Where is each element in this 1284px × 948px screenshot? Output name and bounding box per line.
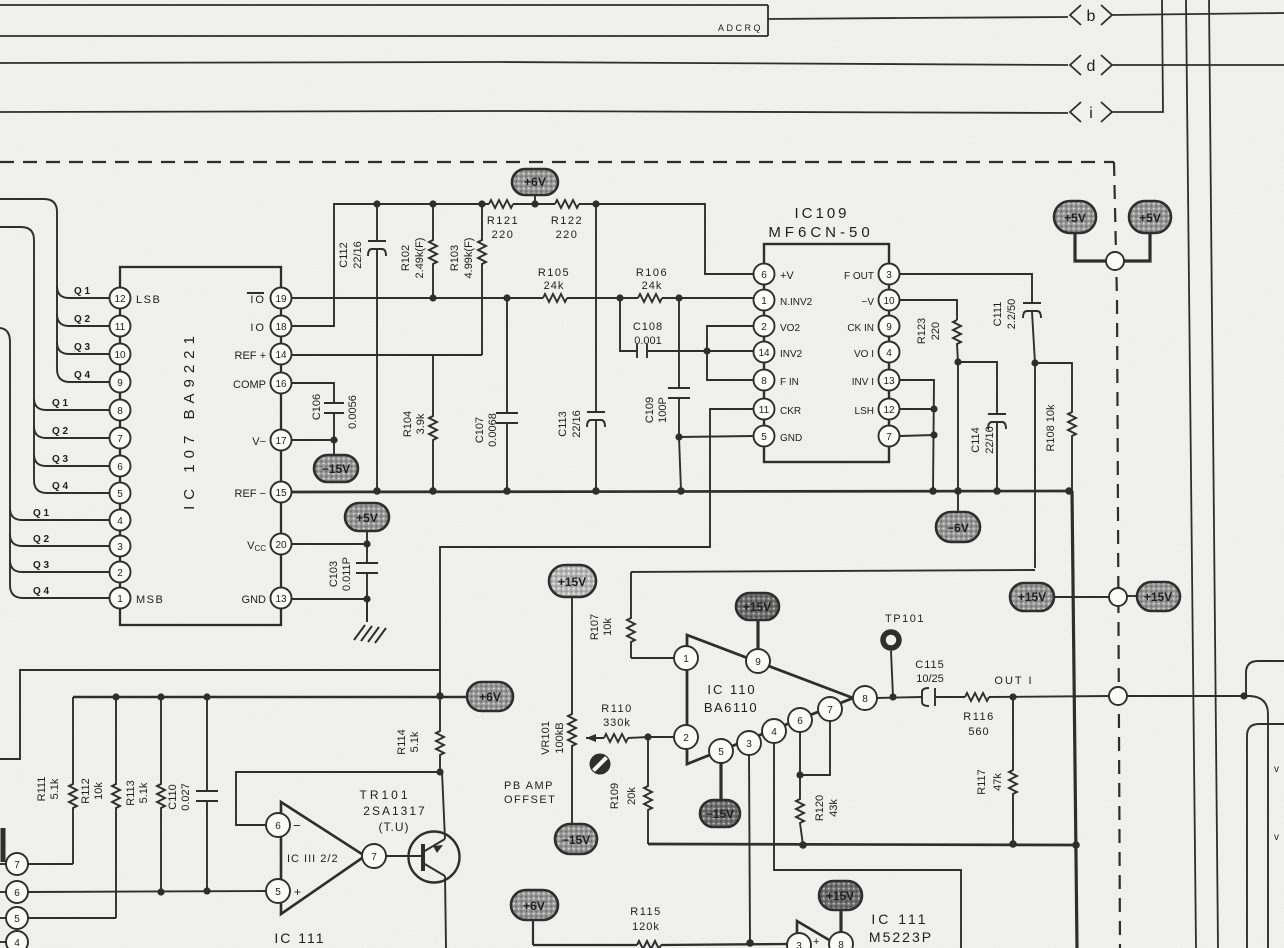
wire IO line R106 to IC109 pin1 [662,297,753,299]
wire vertical right 2 [1209,0,1218,948]
svg-text:100kB: 100kB [554,722,566,753]
pin 6 [110,456,131,477]
svg-text:IC 111: IC 111 [871,911,928,927]
svg-text:14: 14 [275,350,287,361]
svg-text:R117: R117 [976,769,988,794]
junction OUT1 right [1240,692,1247,699]
svg-text:6: 6 [117,462,123,473]
svg-text:R106: R106 [636,267,668,279]
svg-text:0.001: 0.001 [634,335,662,347]
junction R117 on lower bus [1009,840,1017,848]
pin 2 [110,562,131,583]
svg-text:N.INV2: N.INV2 [780,297,813,308]
svg-text:C110: C110 [167,784,179,809]
svg-text:+V: +V [780,270,794,282]
capacitor C115 electrolytic [915,659,965,706]
junction R114/CKR on +6V bus [436,692,444,700]
svg-text:−15V: −15V [562,833,590,847]
wire branch A2 to pin 11 [57,314,110,326]
junction rail C113 bottom [592,487,600,495]
svg-text:+5V: +5V [1064,211,1086,225]
wire from connector i turning up to top edge [1112,0,1163,112]
svg-text:22/16: 22/16 [571,410,583,438]
svg-text:F IN: F IN [780,377,799,388]
wire from connector b to right edge [1112,13,1284,15]
capacitor C112 electrolytic [338,204,386,491]
wire branch A3 to pin 10 [57,342,110,354]
power -15V dark at pin 5 [700,762,740,827]
wire pin7 down and left [800,720,830,775]
svg-text:22/16: 22/16 [984,426,996,454]
junction C108/INV2 node [703,347,710,354]
capacitor C107 [474,298,518,491]
svg-text:0.011P: 0.011P [341,557,353,591]
wire base drive pin7 to TR101 [385,855,422,857]
resistor R122 [555,200,579,208]
svg-text:INV I: INV I [852,377,874,388]
svg-text:3.9k: 3.9k [415,413,427,434]
svg-text:PB AMP: PB AMP [504,780,554,792]
wire bus line 2 (ADCRQ lower) [0,35,768,37]
svg-text:17: 17 [275,436,287,447]
wire bundle group A from left edge [0,199,110,382]
svg-text:15: 15 [275,488,287,499]
svg-text:C103: C103 [328,561,340,587]
svg-text:MF6CN-50: MF6CN-50 [768,224,873,241]
wire FOUT pin3 to C111 [900,274,1032,303]
junction rail +6V stub [531,200,538,207]
svg-text:2: 2 [761,322,767,333]
pin 5 [709,739,733,763]
pin 3 [110,536,131,557]
svg-text:GND: GND [242,594,267,606]
junction pin6/pin7 [796,771,803,778]
svg-text:−: − [293,818,301,833]
junction rail C112 [373,200,380,207]
power +6V bottom [511,890,558,945]
wire branch C3 to pin 2 [10,560,110,572]
junction GND C103 [363,595,370,602]
svg-text:IC 110: IC 110 [707,682,756,697]
svg-text:0.0068: 0.0068 [487,413,499,447]
svg-text:MSB: MSB [136,594,164,606]
power +15V right of pair [1126,582,1180,611]
svg-text:−15V: −15V [706,807,734,821]
resistor R110 [586,703,648,742]
svg-text:12: 12 [883,405,895,416]
pin 3 of IC111a [787,933,811,948]
pin 9 CKIN [847,316,899,337]
svg-text:C107: C107 [474,417,486,443]
svg-text:Q 1: Q 1 [52,398,69,409]
svg-text:5.1k: 5.1k [138,782,150,803]
svg-text:R116: R116 [963,711,994,723]
wire INV1 pin13 [900,380,934,491]
test point TP101 [883,613,925,697]
junction IO R102 [429,294,436,301]
dashed block boundary top [0,161,1114,163]
svg-text:8: 8 [838,940,844,948]
svg-text:12: 12 [114,294,126,305]
svg-text:11: 11 [759,405,770,416]
svg-text:GND: GND [780,433,802,444]
svg-text:C109: C109 [644,397,656,423]
junction R113 bottom [157,888,164,895]
svg-text:R115: R115 [630,906,661,918]
wire branch B1 to pin 8 [34,398,110,410]
node open circle OUT1 on dashed boundary [1109,687,1250,705]
resistor R112 [80,697,120,918]
svg-text:43k: 43k [828,799,840,817]
svg-text:10k: 10k [602,618,614,636]
pin 4 VO1 [854,342,900,363]
capacitor C113 electrolytic [557,204,605,491]
pin 14 REF+ [235,344,292,365]
svg-text:REF −: REF − [235,488,266,500]
wire from right edge curving down [1247,724,1284,948]
svg-text:24k: 24k [544,280,565,292]
svg-text:9: 9 [886,322,892,333]
svg-text:−V: −V [861,297,874,308]
svg-text:100P: 100P [657,397,669,423]
wire CKR net from left edge [0,670,440,759]
svg-text:+15V: +15V [826,889,854,903]
svg-text:+15V: +15V [743,600,771,614]
pin 14 INV2 [754,342,803,363]
svg-text:R105: R105 [538,267,570,279]
svg-text:IO: IO [250,322,266,334]
svg-text:COMP: COMP [233,379,266,391]
svg-text:7: 7 [371,852,377,863]
wire pin7 to R111 [28,863,73,865]
wire COMP pin16 to C106 [291,383,334,403]
power +15V above VR101 [549,565,596,597]
junction R113 on +6V bus [157,693,164,700]
node ADCRQ box right edge [767,5,769,36]
pin 18 IO [250,316,291,337]
svg-text:−6V: −6V [947,521,969,535]
resistor R117 [976,697,1017,844]
resistor R123 [916,318,961,362]
svg-text:+6V: +6V [524,175,546,189]
capacitor C108 bridge [620,298,762,358]
junction R120 on lower bus [799,841,807,849]
power -6V below rail [936,491,980,542]
wire heavy vertical bus [1072,491,1077,948]
resistor R103 [449,204,486,355]
svg-text:0.0056: 0.0056 [347,395,359,429]
svg-text:16: 16 [275,379,287,390]
svg-text:4: 4 [14,938,20,948]
svg-text:13: 13 [883,376,895,387]
svg-text:R114: R114 [396,729,408,754]
pin 9 [746,649,770,673]
wire pin5 to R112 [28,917,116,919]
svg-text:IC 107 BA9221: IC 107 BA9221 [181,330,198,510]
svg-text:C106: C106 [311,394,323,420]
svg-text:10/25: 10/25 [916,673,944,685]
node Q labels group A [33,286,91,597]
junction rail C114 [993,487,1001,495]
svg-text:R120: R120 [814,795,826,821]
capacitor C106 [311,394,359,440]
capacitor C109 [644,298,690,437]
IC U107 body BA9221 [120,267,281,625]
pin 9 [110,372,131,393]
junction lower bus / heavy vertical [1072,841,1080,849]
pin 1 [674,646,698,670]
pin 15 REF- [235,482,292,503]
svg-text:M5223P: M5223P [869,929,933,945]
svg-text:20k: 20k [626,787,638,805]
svg-text:4.99k(F): 4.99k(F) [463,238,475,279]
svg-text:CK IN: CK IN [847,323,874,334]
junction rail R123 [954,487,962,495]
svg-text:14: 14 [758,348,770,359]
svg-text:IC 111: IC 111 [274,930,325,946]
svg-text:8: 8 [117,406,123,417]
svg-text:TP101: TP101 [885,613,925,625]
svg-text:3: 3 [886,270,892,281]
node open circle +5V on dashed boundary [1106,252,1124,270]
svg-text:5: 5 [117,489,123,500]
wire bus line d left [0,62,1068,65]
svg-text:22/16: 22/16 [352,241,364,269]
pin 5 GND [754,426,803,447]
svg-text:Q 3: Q 3 [74,342,91,353]
resistor R102 [400,204,437,298]
connector pin 5 [0,907,28,929]
wire from connector d to right edge [1112,64,1284,66]
connector pin 6 [0,881,28,903]
svg-text:IO: IO [250,294,266,306]
junction Vcc [363,540,370,547]
connector b [1070,5,1112,25]
wire from right edge into OUT1 node [1246,661,1284,696]
svg-text:(T.U): (T.U) [379,820,410,834]
wire +6V rail from pin 18 [291,204,489,326]
svg-text:Q 2: Q 2 [52,426,69,437]
wire Vcc pin20 [291,543,367,545]
svg-text:9: 9 [755,657,761,668]
svg-text:2: 2 [117,568,123,579]
svg-text:Q 1: Q 1 [74,286,91,297]
svg-text:220: 220 [492,229,515,241]
junction C111/R108/R107 node [1031,359,1038,366]
connector i [1070,102,1112,122]
wire feedback pin6 loop [236,772,440,825]
wire node down to R107 line [1034,363,1036,568]
svg-text:Q 3: Q 3 [52,454,69,465]
wire ADCRQ to connector b [768,17,1068,19]
pin 2 [674,725,698,749]
junction C110 bottom [203,887,210,894]
pin 11 [110,316,131,337]
svg-text:1: 1 [117,594,123,605]
svg-text:OUT I: OUT I [994,675,1033,687]
svg-text:R102: R102 [400,245,412,271]
svg-text:7: 7 [886,432,892,443]
svg-text:2: 2 [683,733,689,744]
pin 7 output [362,844,386,868]
wire IO line pin19 to R105 [291,297,543,299]
IC U109 body MF6CN-50 [764,244,889,462]
svg-text:4: 4 [886,348,892,359]
pin 19 IO- [247,288,292,309]
wire branch A1 to pin 12 [57,286,110,298]
junction R112 on +6V bus [112,693,119,700]
svg-text:VO2: VO2 [780,323,800,334]
junction C109 top [675,294,682,301]
resistor R108 [1035,363,1076,491]
power +15V bottom [819,881,862,933]
svg-text:v: v [1274,832,1279,843]
svg-text:120k: 120k [632,921,660,933]
junction C108 left [616,294,623,301]
svg-text:4: 4 [117,516,123,527]
pin 10 [110,344,131,365]
pin 8 FIN [754,370,799,391]
wire branch B3 to pin 6 [34,454,110,466]
junction R110/R109/pin2 [644,733,651,740]
op-amp U111a body partial [797,921,846,948]
svg-text:d: d [1087,58,1096,75]
wire pin6 down [799,731,801,775]
op-amp U111b body IC111 2/2 [281,802,365,914]
node open circle +15V on dashed boundary [1109,588,1127,606]
wire GND pin13 [291,598,367,600]
svg-text:8: 8 [761,376,767,387]
pin 7 [818,697,842,721]
svg-text:7: 7 [827,705,833,716]
svg-text:220: 220 [556,229,579,241]
svg-text:3: 3 [746,739,752,750]
wire bus line 1 (ADCRQ upper) [0,4,768,6]
svg-text:+15V: +15V [1144,590,1172,604]
svg-text:47k: 47k [992,773,1004,791]
transistor TR101 2SA1317 [359,772,459,948]
svg-text:VR101: VR101 [540,721,552,755]
pin 3 FOUT [844,264,900,285]
pin 16 COMP [233,373,292,394]
capacitor C114 electrolytic [958,362,1006,491]
svg-text:+15V: +15V [558,575,586,589]
wire LSH pin12 [900,408,934,410]
pin 7 [110,428,131,449]
wire branch B2 to pin 7 [34,426,110,438]
junction TP101 [889,693,896,700]
potentiometer VR101 [540,597,596,824]
wire IC109 GND pin5 to C109 bottom [679,436,753,437]
pin 4 [762,719,786,743]
junction R117 top [1009,693,1016,700]
pin 12 LSH [855,399,900,420]
junction rail R108 / heavy bus [1065,487,1073,495]
svg-text:+: + [813,936,819,948]
pin 13 INV1 [852,370,900,391]
svg-text:6: 6 [761,270,767,281]
svg-text:i: i [1089,105,1093,122]
svg-text:1: 1 [761,296,767,307]
pin 8 of IC111a [829,932,853,948]
pin 11 CKR [754,399,802,420]
svg-text:+15V: +15V [1018,590,1046,604]
junction C109 bottom [675,433,682,440]
svg-text:20: 20 [275,540,287,551]
junction rail R104 bottom [429,487,437,495]
connector d [1070,55,1112,75]
pin 8 [853,686,877,710]
pin 7 [879,426,900,447]
wire branch C1 to pin 4 [10,508,110,520]
svg-text:560: 560 [968,726,989,738]
power +15V dark at pin 9 [736,593,779,650]
resistor R105 [543,294,567,302]
svg-text:6: 6 [14,888,20,899]
pin 8 [110,400,131,421]
pin 20 Vcc [247,534,291,555]
pin 2 VO2 [754,316,801,337]
svg-text:5: 5 [761,432,767,443]
pin 3 [737,731,761,755]
adjustment screw symbol [590,754,611,775]
junction R123/C114 [954,358,961,365]
svg-text:2SA1317: 2SA1317 [363,804,426,818]
svg-text:C108: C108 [633,321,663,333]
svg-text:R122: R122 [551,215,583,227]
svg-text:5.1k: 5.1k [409,731,421,752]
svg-text:+6V: +6V [523,899,545,913]
wire heavy lower bus from R109 [648,844,1076,845]
wire pin7 [900,435,934,436]
wire rail right to IC109 +V [579,204,753,274]
connector pin 7 [0,828,28,875]
pin 5 non-inverting [266,879,301,903]
svg-text:Q 4: Q 4 [33,586,50,597]
power +5V right of pair [1123,201,1171,261]
svg-text:R110: R110 [601,703,632,715]
svg-text:10: 10 [114,350,126,361]
wire OUT1 curve down at right [1250,696,1268,948]
svg-text:R121: R121 [487,215,519,227]
svg-text:V−: V− [252,436,266,448]
svg-text:R103: R103 [449,245,461,271]
junction IO C107 [503,294,510,301]
power +15V left of pair [1010,583,1110,611]
junction LSH [930,405,937,412]
svg-text:TR101: TR101 [359,788,410,802]
junction rail C109 branch [677,487,685,495]
resistor R121 [489,200,513,208]
power +5V left of pair [1054,201,1107,261]
wire IO line R105 to R106 [567,297,638,299]
svg-text:0.027: 0.027 [180,783,192,811]
wire to pin 2 [648,736,675,738]
wire R123 node to rail [957,362,959,491]
pin 17 V- [252,430,291,451]
svg-text:C114: C114 [970,427,982,452]
junction rail C113 [592,200,599,207]
svg-text:13: 13 [275,594,287,605]
pin 4 [110,510,131,531]
resistor R111 [36,697,77,864]
resistor R116 [963,693,994,738]
power +6V top [512,169,558,204]
junction rail INV1 [929,487,937,495]
svg-text:4: 4 [771,727,777,738]
svg-text:R113: R113 [125,780,137,805]
wire REF- rail [291,491,1072,492]
